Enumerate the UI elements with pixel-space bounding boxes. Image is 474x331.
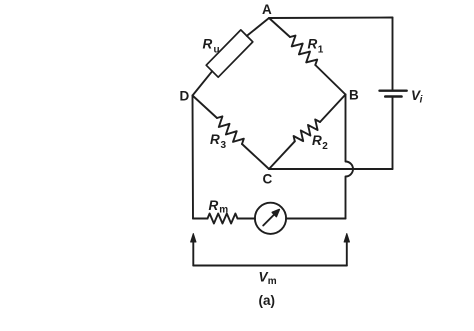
svg-text:i: i bbox=[420, 95, 423, 106]
Vm bottom wire bbox=[193, 265, 346, 267]
resistor R1 bbox=[290, 36, 317, 65]
wire B down with hop over C rail bbox=[346, 95, 354, 219]
wire Rm to meter bbox=[238, 218, 256, 220]
resistor Ru (unknown, box) bbox=[206, 30, 253, 77]
label Vm bbox=[259, 270, 277, 288]
svg-text:R: R bbox=[210, 132, 220, 147]
node C bbox=[263, 172, 273, 187]
wire arm C-B bbox=[269, 95, 346, 170]
svg-text:3: 3 bbox=[221, 140, 227, 151]
label Ru bbox=[203, 37, 220, 56]
svg-text:R: R bbox=[203, 37, 213, 52]
node B bbox=[349, 88, 359, 103]
svg-text:A: A bbox=[262, 2, 272, 17]
svg-text:R: R bbox=[209, 198, 219, 213]
wire meter to B rail bbox=[286, 218, 345, 220]
label Rm bbox=[209, 198, 229, 216]
wire battery to bottom-right corner bbox=[392, 97, 394, 170]
svg-text:1: 1 bbox=[318, 45, 324, 56]
label (a) bbox=[259, 293, 276, 308]
label R3 bbox=[210, 132, 227, 151]
wire meter branch left segment bbox=[193, 218, 208, 220]
Vm right arrow bbox=[344, 234, 349, 266]
svg-text:R: R bbox=[308, 37, 318, 52]
label Vi bbox=[411, 88, 423, 106]
Vm left arrow bbox=[191, 234, 196, 266]
svg-text:u: u bbox=[214, 45, 220, 56]
svg-text:C: C bbox=[263, 172, 273, 187]
label R2 bbox=[312, 133, 328, 152]
svg-text:(a): (a) bbox=[259, 293, 276, 308]
galvanometer M1 bbox=[255, 203, 286, 234]
svg-text:m: m bbox=[268, 276, 277, 287]
svg-text:D: D bbox=[180, 89, 190, 104]
wire bottom rail corner to node C bbox=[269, 168, 393, 170]
resistor Rm bbox=[208, 214, 238, 224]
svg-text:R: R bbox=[312, 133, 322, 148]
node A bbox=[262, 2, 272, 17]
svg-text:B: B bbox=[349, 88, 359, 103]
wire arm D-C bbox=[193, 96, 270, 170]
resistor R2 bbox=[294, 119, 320, 141]
resistor R3 bbox=[217, 116, 244, 144]
node D bbox=[180, 89, 190, 104]
wire arm A-D bbox=[193, 18, 270, 96]
wire A to top-right corner bbox=[269, 17, 393, 20]
wire right rail down to battery bbox=[392, 18, 394, 91]
svg-text:m: m bbox=[219, 205, 228, 216]
wire D down to meter branch bbox=[192, 96, 195, 219]
wire arm A-B bbox=[269, 18, 346, 95]
svg-text:2: 2 bbox=[322, 141, 328, 152]
label R1 bbox=[308, 37, 324, 56]
battery Vi bbox=[380, 91, 407, 97]
